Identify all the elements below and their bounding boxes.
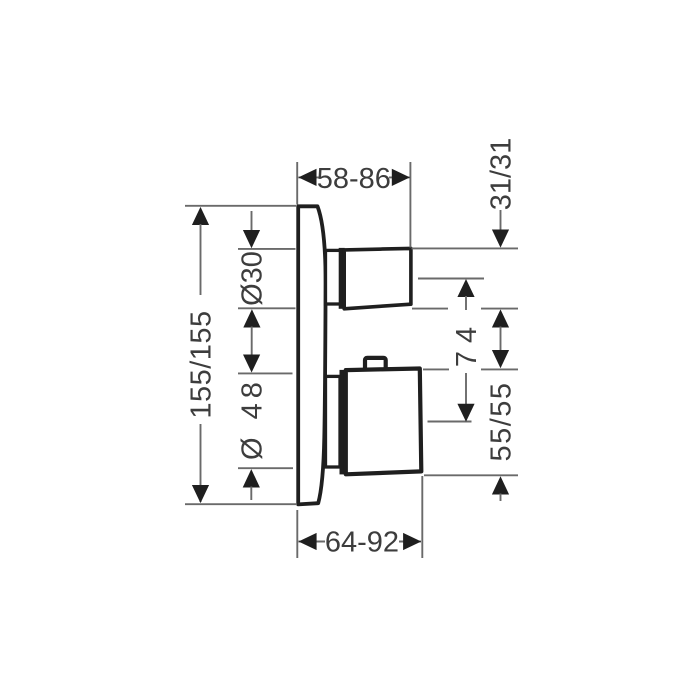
- extension line: plate bottom (left): [185, 503, 296, 505]
- svg-text:Ø30: Ø30: [237, 251, 269, 306]
- bottom knob body: [346, 369, 422, 475]
- top knob sleeve: [326, 250, 341, 304]
- svg-text:55/55: 55/55: [485, 381, 517, 461]
- extension line: 64-92 left: [296, 510, 298, 558]
- escutcheon plate (side view): [298, 206, 325, 504]
- extension line: bottom knob bottom (left): [238, 467, 293, 469]
- extension line: 58-86 left: [296, 162, 298, 205]
- extension line: top knob bottom (left): [238, 307, 296, 309]
- svg-text:31/31: 31/31: [485, 138, 517, 211]
- extension line: bottom knob top (left): [238, 372, 293, 374]
- shared outside arrows between knobs (x=500.5): [492, 309, 509, 327]
- extension line: top knob centerline (right): [418, 278, 484, 280]
- dimension 58-86 line+arrows: [298, 176, 319, 178]
- extension line: top knob top (right): [412, 247, 519, 249]
- dimension 155/155 line+arrows: [192, 207, 209, 225]
- dimension Ø48 arrows: [243, 355, 260, 373]
- svg-text:58-86: 58-86: [317, 163, 391, 195]
- extension line: top knob bottom (right, broken): [412, 308, 448, 310]
- svg-text:64-92: 64-92: [325, 527, 399, 559]
- top knob stop ring (black bar): [339, 248, 345, 309]
- dimension 74 line+arrows: [457, 279, 474, 297]
- bottom knob tab (stop button): [365, 358, 386, 371]
- extension line: bottom knob bottom (right): [424, 474, 518, 476]
- extension line: plate top (left): [185, 205, 296, 207]
- dimension Ø30 arrows: [251, 211, 253, 232]
- svg-text:Ø 48: Ø 48: [236, 377, 268, 460]
- bottom knob sleeve: [326, 376, 341, 467]
- extension line: bottom knob centerline (right): [428, 421, 472, 423]
- extension line: bottom knob top (right, broken): [423, 368, 449, 370]
- dimension 64-92 line+arrows: [298, 541, 325, 543]
- bottom knob stop ring (black bar): [340, 370, 347, 475]
- svg-text:155/155: 155/155: [185, 310, 217, 418]
- extension line: 58-86 right: [409, 162, 411, 248]
- extension line: 64-92 right: [421, 476, 423, 558]
- extension line: top knob top (left): [238, 248, 296, 250]
- svg-text:7 4: 7 4: [451, 327, 483, 367]
- dimension 31/31 line+arrow: [500, 210, 502, 231]
- top knob body: [344, 248, 411, 308]
